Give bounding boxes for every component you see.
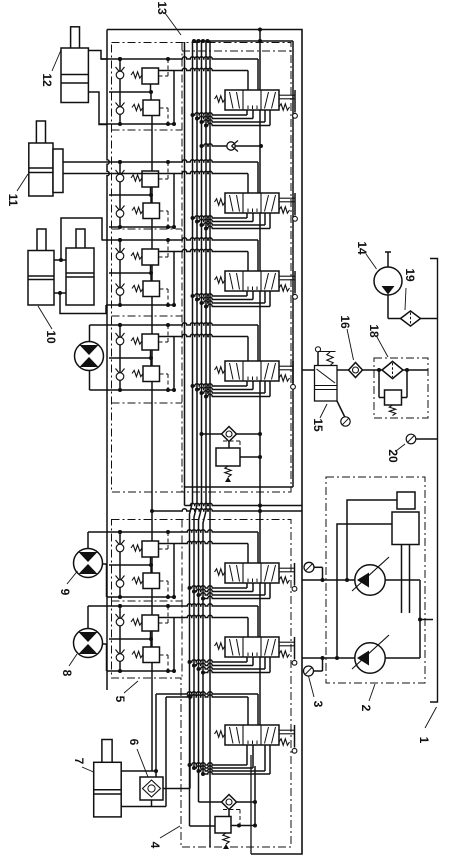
parallel bus line 1 — [190, 41, 193, 765]
cylinder 12 line A — [88, 51, 107, 60]
group2 (cyl 11) drain mid line — [109, 194, 151, 196]
group5 (motor 9) relief valve box upper — [142, 541, 159, 557]
group4 (motor) tank/bus link 4 — [269, 381, 271, 397]
svg-text:15: 15 — [311, 418, 325, 432]
group5 (motor 9) drain mid line — [109, 564, 151, 566]
group 4 pair dash-dot box — [112, 402, 183, 404]
pump 14 — [374, 267, 402, 295]
group3 (cyls 10) valve left spring — [215, 277, 226, 283]
cylinder 10 left piston — [28, 275, 54, 277]
filter 18 dash-dot box — [374, 358, 428, 418]
group2 (cyl 11) pilot dashed lines — [159, 178, 169, 180]
group6 (motor 8) tank/bus link 3 — [264, 657, 266, 669]
group1 (cyl 12) valve centre cell port marks — [247, 106, 249, 110]
carry-over check valve line — [202, 144, 262, 146]
group4 (motor) relief out vertical — [173, 337, 175, 391]
group3 (cyls 10) anti-cavitation check 2 — [116, 284, 125, 290]
group1 (cyl 12) relief spring upper — [131, 72, 142, 78]
group2 (cyl 11) relief spring lower — [132, 207, 143, 213]
group3 (cyls 10) valve drain vent circle — [293, 294, 298, 299]
main relief valve top block — [228, 442, 230, 449]
group4 (motor) valve centre cell port marks — [247, 377, 249, 381]
cylinder 11 rod — [36, 121, 45, 168]
group1 (cyl 12) anti-cavitation check 1 — [116, 67, 125, 73]
svg-text:13: 13 — [155, 1, 169, 15]
cylinders 10 parallel links — [54, 259, 66, 261]
drain out line — [152, 509, 302, 511]
cylinder 7 rod — [102, 740, 112, 790]
group3 (cyls 10) relief out vertical — [173, 252, 175, 306]
group7 mid line drop — [165, 697, 167, 807]
valve assembly outer frame — [107, 30, 302, 855]
main relief outlet top — [240, 456, 260, 458]
line check16 to filter 18 — [363, 369, 383, 371]
cylinder 12 barrel — [61, 48, 88, 103]
cylinder 7 port lines — [121, 770, 156, 772]
group6 (motor 8) check stack line — [119, 606, 121, 671]
group5 (motor 9) relief spring upper — [131, 545, 142, 551]
group3 (cyls 10) drain mid line — [109, 272, 151, 274]
group2 (cyl 11) anti-cavitation check 2 — [116, 206, 125, 212]
group5 (motor 9) work line A to valve — [88, 530, 258, 532]
group5 (motor 9) valve right spring — [279, 577, 290, 583]
svg-text:14: 14 — [355, 241, 369, 255]
check valve 16 — [349, 363, 363, 378]
group5 (motor 9) check stack line — [119, 532, 121, 597]
group3 (cyls 10) relief spring upper — [131, 253, 142, 259]
group4 (motor) relief valve box lower — [143, 366, 160, 382]
group 2 pair dash-dot box — [112, 228, 183, 230]
svg-text:6: 6 — [127, 739, 141, 746]
cylinder 10 right rod — [76, 229, 85, 273]
group3 (cyls 10) mid work line to valve — [159, 249, 249, 251]
variable pump A — [355, 565, 385, 595]
group2 (cyl 11) relief valve box lower — [143, 203, 160, 219]
bypass relief spring — [389, 405, 395, 416]
group1 (cyl 12) mid work line to valve — [159, 68, 249, 70]
group6 (motor 8) valve centre cell port marks — [247, 653, 249, 657]
cylinder 12 piston — [61, 74, 88, 76]
pump B delivery line — [302, 657, 356, 659]
carry-over line — [151, 115, 153, 771]
svg-text:10: 10 — [44, 330, 58, 344]
top valve block dash-dot boundary — [112, 43, 292, 493]
group4 (motor) work line B — [90, 389, 175, 391]
gauge 3 — [304, 666, 314, 676]
svg-text:11: 11 — [6, 194, 20, 207]
group3 (cyls 10) valve left cell arrows — [230, 273, 234, 290]
cylinder 10 right barrel — [66, 248, 94, 305]
group2 (cyl 11) valve right spring — [279, 207, 290, 213]
group2 (cyl 11) relief out vertical — [173, 174, 175, 228]
pump regulator rod — [401, 545, 403, 614]
cylinder 11 barrel — [29, 143, 53, 196]
group1 (cyl 12) valve pilot bar — [279, 94, 295, 96]
pilot relief valve 15 feed line — [302, 369, 315, 371]
group2 (cyl 11) relief valve box upper — [142, 171, 159, 187]
group1 (cyl 12) tank/bus link 2 — [252, 110, 254, 119]
group4 (motor) tank/bus link 3 — [264, 381, 266, 393]
group6 (motor 8) anti-cavitation check 1 — [116, 614, 125, 620]
valve 15 gauge point — [337, 401, 345, 417]
group5 (motor 9) valve drain vent circle — [292, 586, 297, 591]
group4 (motor) relief spring lower — [132, 370, 143, 376]
check valve 6 outlet — [163, 788, 190, 790]
group4 (motor) valve left cell arrows — [230, 363, 234, 380]
group4 (motor) valve drain vent circle — [291, 384, 296, 389]
group3 (cyls 10) pilot dashed lines — [159, 256, 169, 258]
group5 (motor 9) pilot dashed lines — [159, 548, 169, 550]
check valve 6 box — [140, 777, 163, 800]
group2 (cyl 11) tank/bus link 4 — [269, 213, 271, 229]
pump A delivery line — [302, 579, 356, 581]
group6 (motor 8) valve left cell arrows — [230, 639, 234, 656]
regulator control lines — [347, 500, 397, 580]
svg-text:9: 9 — [58, 589, 72, 596]
group5 (motor 9) anti-cavitation check 2 — [116, 576, 125, 582]
cylinder 10 right piston — [66, 272, 94, 274]
group1 (cyl 12) valve left cell arrows — [230, 92, 234, 109]
group2 (cyl 11) relief spring upper — [131, 175, 142, 181]
group7 line A drop to cylinder 7 — [155, 694, 157, 771]
group6 (motor 8) valve left spring — [215, 643, 226, 649]
filter 18 bypass relief — [378, 370, 380, 398]
group5 (motor 9) tank/bus link 3 — [264, 583, 266, 595]
valve 15 pilot stem — [317, 352, 319, 366]
svg-text:5: 5 — [113, 696, 127, 703]
return line to frame bottom — [250, 755, 252, 854]
group2 (cyl 11) work line A to valve — [63, 160, 258, 162]
group2 (cyl 11) spool valve body — [225, 193, 279, 213]
svg-text:12: 12 — [40, 73, 54, 87]
group3 (cyls 10) work line B — [106, 304, 174, 306]
group1 (cyl 12) drain mid line — [109, 91, 151, 93]
group1 (cyl 12) anti-cavitation check 2 — [116, 103, 125, 109]
group5 (motor 9) relief out vertical — [173, 544, 175, 598]
group6 (motor 8) relief spring upper — [131, 619, 142, 625]
group5 (motor 9) valve left cell arrows — [230, 565, 234, 582]
group4 (motor) mid work line to valve — [159, 334, 249, 336]
bottom relief spring/drain — [223, 833, 229, 844]
hydraulic motor 9 — [74, 549, 103, 578]
group2 (cyl 11) tank/bus link 3 — [264, 213, 266, 225]
variable pump B — [355, 643, 385, 673]
block divider line — [185, 486, 294, 488]
group7 mid work line — [166, 695, 248, 697]
tank out line — [185, 503, 303, 505]
cylinder 11 port block — [53, 149, 63, 193]
group1 (cyl 12) spool valve body — [225, 90, 279, 110]
main feed line — [259, 30, 261, 726]
group5 (motor 9) work line B — [107, 596, 175, 598]
group4 (motor) relief valve box upper — [142, 334, 159, 350]
group5 (motor 9) relief valve box lower — [143, 573, 160, 589]
group4 (motor) spool valve body — [225, 361, 279, 381]
group3 (cyls 10) tank/bus link 4 — [269, 291, 271, 307]
group7 spool valve body — [225, 725, 279, 745]
svg-text:16: 16 — [338, 315, 352, 329]
bottom relief feed drop — [198, 771, 200, 802]
group4 (motor) pilot dashed lines — [159, 341, 169, 343]
pump regulator cylinder barrel — [392, 512, 419, 545]
group1 (cyl 12) valve right spring — [279, 104, 290, 110]
pump regulator cylinder cap — [397, 492, 415, 509]
group4 (motor) valve right cell arrows — [265, 363, 269, 380]
group 5 pair dash-dot box — [112, 600, 183, 602]
group5 (motor 9) tank/bus link 4 — [269, 583, 271, 599]
group7 tank/bus links — [246, 745, 248, 765]
group2 (cyl 11) check stack line — [119, 162, 121, 227]
group4 (motor) valve right spring — [279, 375, 290, 381]
group6 (motor 8) work line A to valve — [88, 604, 258, 606]
group2 (cyl 11) valve pilot bar — [279, 197, 295, 199]
group1 (cyl 12) relief valve box upper — [142, 68, 159, 84]
gauge 3a — [304, 562, 314, 572]
group1 (cyl 12) work line B — [99, 123, 174, 125]
group4 (motor) tank/bus link 2 — [252, 381, 254, 390]
svg-text:4: 4 — [148, 842, 162, 849]
group6 (motor 8) valve right spring — [279, 651, 290, 657]
group7 work line A — [156, 692, 258, 694]
group3 (cyls 10) tank/bus link 2 — [252, 291, 254, 300]
group5 (motor 9) valve right cell arrows — [265, 565, 269, 582]
line to check valve 16 — [337, 369, 349, 371]
group2 (cyl 11) anti-cavitation check 1 — [116, 170, 125, 176]
group4 (motor) anti-cavitation check 1 — [116, 333, 125, 339]
bottom relief left feed — [189, 765, 191, 826]
bottom valve block dash-dot boundary — [112, 520, 292, 848]
group3 (cyls 10) work line A to valve — [102, 238, 258, 240]
parallel bus line 3 — [199, 41, 202, 771]
main relief line top block — [202, 433, 261, 435]
filter 19 — [401, 311, 421, 326]
group 3 pair dash-dot box — [112, 315, 183, 317]
group3 (cyls 10) anti-cavitation check 1 — [116, 248, 125, 254]
cylinder 7 barrel — [94, 762, 122, 817]
group1 (cyl 12) relief out vertical — [173, 71, 175, 125]
group6 (motor 8) mid work line to valve — [159, 615, 249, 617]
group6 (motor 8) work line B — [107, 670, 175, 672]
group5 (motor 9) valve left spring — [215, 569, 226, 575]
group5 (motor 9) tank/bus link 1 — [246, 583, 248, 588]
motor group4 lines — [89, 325, 91, 341]
motor 8 lines — [87, 606, 89, 629]
group3 (cyls 10) valve centre cell port marks — [247, 287, 249, 291]
group1 (cyl 12) tank/bus link 1 — [246, 110, 248, 115]
group7 valve right spring — [279, 739, 290, 745]
group1 (cyl 12) relief valve box lower — [143, 100, 160, 116]
group2 (cyl 11) valve centre cell port marks — [247, 209, 249, 213]
svg-text:1: 1 — [417, 737, 431, 744]
valve 15 spring — [327, 352, 333, 366]
group6 (motor 8) tank/bus link 4 — [269, 657, 271, 673]
cylinder 10 left rod — [37, 229, 46, 276]
group6 (motor 8) relief out vertical — [173, 618, 175, 672]
group 1 pair dash-dot box — [112, 129, 183, 131]
group1 (cyl 12) check stack line — [119, 59, 121, 124]
hydraulic motor (group4) — [75, 342, 104, 371]
svg-text:18: 18 — [367, 324, 381, 338]
inner manifold right drop — [292, 41, 294, 487]
group6 (motor 8) anti-cavitation check 2 — [116, 650, 125, 656]
group3 (cyls 10) relief valve box lower — [143, 281, 160, 297]
bottom relief valve — [228, 810, 230, 817]
group4 (motor) relief spring upper — [131, 338, 142, 344]
cylinder 12 line B — [88, 92, 107, 125]
reservoir bracket 1 — [430, 259, 438, 703]
group6 (motor 8) relief spring lower — [132, 651, 143, 657]
svg-text:19: 19 — [403, 268, 417, 282]
group3 (cyls 10) tank/bus link 3 — [264, 291, 266, 303]
svg-text:8: 8 — [60, 670, 74, 677]
carry-over check valve — [227, 142, 235, 150]
svg-text:2: 2 — [359, 705, 373, 712]
group6 (motor 8) relief valve box lower — [143, 647, 160, 663]
group3 (cyls 10) relief spring lower — [132, 285, 143, 291]
pressure manifold line — [194, 40, 293, 42]
group2 (cyl 11) valve left cell arrows — [230, 195, 234, 212]
long drain line — [209, 41, 211, 847]
bottom relief drain line — [254, 766, 256, 826]
group5 (motor 9) anti-cavitation check 1 — [116, 540, 125, 546]
group2 (cyl 11) tank/bus link 2 — [252, 213, 254, 222]
svg-text:3: 3 — [311, 701, 325, 708]
group3 (cyls 10) valve right cell arrows — [265, 273, 269, 290]
group6 (motor 8) spool valve body — [225, 637, 279, 657]
svg-text:7: 7 — [72, 758, 86, 765]
group3 (cyls 10) check stack line — [119, 240, 121, 305]
group2 (cyl 11) valve right cell arrows — [265, 195, 269, 212]
group1 (cyl 12) tank/bus link 4 — [269, 110, 271, 126]
group1 (cyl 12) relief spring lower — [132, 104, 143, 110]
filter 18 outlet — [403, 369, 428, 371]
group1 (cyl 12) tank/bus link 3 — [264, 110, 266, 122]
group4 (motor) check stack line — [119, 325, 121, 390]
pump 14 outlet — [387, 295, 389, 319]
bottom relief check diamond — [222, 795, 237, 810]
group7 valve pilot bar — [279, 729, 295, 731]
group6 (motor 8) relief valve box upper — [142, 615, 159, 631]
group2 (cyl 11) tank/bus link 1 — [246, 213, 248, 218]
group6 (motor 8) tank/bus link 1 — [246, 657, 248, 662]
parallel bus line 4 — [203, 41, 206, 774]
group4 (motor) work line A to valve — [90, 323, 259, 325]
cylinders 10 feed lines — [61, 218, 102, 260]
group5 (motor 9) spool valve body — [225, 563, 279, 583]
group6 (motor 8) tank/bus link 2 — [252, 657, 254, 666]
group4 (motor) anti-cavitation check 2 — [116, 369, 125, 375]
group5 (motor 9) relief spring lower — [132, 577, 143, 583]
group2 (cyl 11) valve left spring — [215, 199, 226, 205]
group5 (motor 9) valve pilot bar — [279, 567, 295, 569]
group2 (cyl 11) work line B — [109, 226, 174, 228]
bottom relief outlet — [231, 825, 255, 827]
group1 (cyl 12) valve left spring — [215, 96, 226, 102]
group5 (motor 9) tank/bus link 2 — [252, 583, 254, 592]
tank line — [184, 42, 186, 506]
svg-text:20: 20 — [386, 449, 400, 463]
group2 (cyl 11) valve drain vent circle — [293, 216, 298, 221]
group1 (cyl 12) work line A to valve — [101, 57, 258, 59]
group6 (motor 8) valve drain vent circle — [292, 660, 297, 665]
group7 valve centre cell port marks — [247, 741, 249, 745]
group3 (cyls 10) valve right spring — [279, 285, 290, 291]
main relief spring/drain top — [225, 466, 231, 477]
group7 valve right cell arrows — [265, 727, 269, 744]
main relief check diamond top — [222, 427, 237, 442]
group7 valve left cell arrows — [230, 727, 234, 744]
bottom relief line — [199, 801, 256, 803]
group4 (motor) tank/bus link 1 — [246, 381, 248, 386]
group5 (motor 9) mid work line to valve — [159, 541, 249, 543]
group6 (motor 8) drain mid line — [109, 638, 151, 640]
cylinder 10 left barrel — [28, 251, 54, 306]
pump suction manifold — [385, 579, 421, 581]
group3 (cyls 10) relief valve box upper — [142, 249, 159, 265]
group4 (motor) drain mid line — [109, 357, 151, 359]
cylinder 7 piston — [94, 789, 122, 791]
cylinder 12 rod — [71, 27, 80, 75]
group4 (motor) valve pilot bar — [279, 365, 293, 367]
group6 (motor 8) valve pilot bar — [279, 641, 295, 643]
hydraulic motor 8 — [74, 629, 103, 658]
group7 valve drain vent circle — [292, 748, 297, 753]
group3 (cyls 10) valve pilot bar — [279, 275, 295, 277]
gauge 20 — [406, 434, 416, 444]
pump 14 suction stub — [387, 252, 389, 267]
group1 (cyl 12) valve right cell arrows — [265, 92, 269, 109]
parallel bus line 2 — [194, 41, 197, 768]
group6 (motor 8) valve right cell arrows — [265, 639, 269, 656]
pump unit dash-dot box — [326, 477, 425, 683]
group7 valve left spring — [215, 731, 226, 737]
group2 (cyl 11) mid work line to valve — [63, 171, 248, 173]
group1 (cyl 12) pilot dashed lines — [159, 75, 169, 77]
group6 (motor 8) pilot dashed lines — [159, 622, 169, 624]
filter 18 — [382, 361, 403, 378]
group1 (cyl 12) valve drain vent circle — [293, 113, 298, 118]
group4 (motor) valve left spring — [215, 367, 226, 373]
cylinder 11 piston — [29, 167, 53, 169]
group3 (cyls 10) tank/bus link 1 — [246, 291, 248, 296]
group5 (motor 9) valve centre cell port marks — [247, 579, 249, 583]
pilot relief valve 15 — [315, 366, 338, 402]
motor 9 lines — [87, 532, 89, 549]
group3 (cyls 10) spool valve body — [225, 271, 279, 291]
